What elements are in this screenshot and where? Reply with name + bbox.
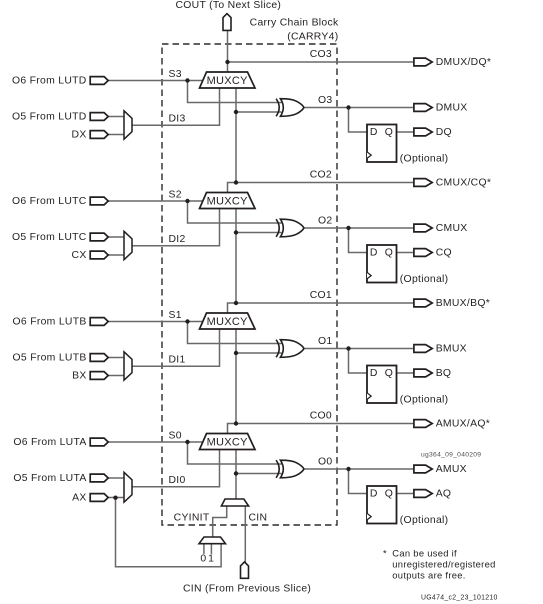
wire flip-flop Q output BQ bbox=[397, 372, 416, 374]
output arrow BMUX/BQ* bbox=[414, 299, 432, 307]
input arrow CX bbox=[90, 251, 108, 259]
svg-text:*: * bbox=[383, 547, 387, 558]
svg-text:UG474_c2_23_101210: UG474_c2_23_101210 bbox=[421, 595, 498, 602]
CYINIT/CIN select mux bbox=[221, 499, 248, 506]
svg-text:MUXCY: MUXCY bbox=[207, 436, 249, 448]
wire to flip-flop D input stage B bbox=[349, 349, 369, 374]
wire O3 output from XOR bbox=[304, 107, 416, 109]
clock triangle flip-flop CQ bbox=[367, 272, 371, 279]
wire DI1 from input mux to MUXCY stage B bbox=[132, 330, 220, 367]
svg-text:O5 From LUTB: O5 From LUTB bbox=[13, 353, 87, 364]
svg-text:DI2: DI2 bbox=[169, 234, 186, 245]
svg-text:AX: AX bbox=[72, 493, 86, 504]
wire carry chain CO0 up to MUXCY stage above bbox=[235, 330, 237, 424]
svg-text:(Optional): (Optional) bbox=[400, 154, 449, 165]
carry chain block dashed boundary (CARRY4) bbox=[162, 44, 337, 525]
svg-text:0: 0 bbox=[200, 553, 206, 564]
output arrow CQ bbox=[414, 249, 432, 257]
wire COUT to MUXCY stage D output bbox=[227, 31, 229, 73]
svg-text:DX: DX bbox=[72, 130, 87, 141]
junction node O2 bbox=[346, 226, 350, 230]
svg-text:DMUX: DMUX bbox=[436, 103, 468, 114]
wire O0 output from XOR bbox=[304, 468, 416, 470]
wire O2 output from XOR bbox=[304, 227, 416, 229]
wire CYINIT-CIN mux output to MUXCY stage A bbox=[235, 450, 237, 500]
input mux O5/CX stage C bbox=[124, 231, 132, 259]
wire O6 From LUTC to select S2 bbox=[108, 200, 204, 202]
XOR gate stage C bbox=[276, 219, 304, 237]
svg-text:S3: S3 bbox=[169, 69, 182, 80]
wire constant 1 stub bbox=[210, 544, 212, 554]
svg-text:CQ: CQ bbox=[436, 248, 452, 259]
input arrow O6 From LUTD bbox=[90, 77, 108, 85]
flip-flop AQ box bbox=[367, 486, 397, 524]
svg-text:CIN (From Previous Slice): CIN (From Previous Slice) bbox=[183, 583, 311, 594]
wire CO2 output bbox=[236, 182, 415, 184]
svg-text:Carry Chain Block: Carry Chain Block bbox=[250, 18, 339, 29]
svg-text:D: D bbox=[370, 368, 378, 379]
svg-text:DI3: DI3 bbox=[169, 114, 186, 125]
wire CX input bbox=[108, 254, 125, 256]
wire flip-flop Q output DQ bbox=[397, 131, 416, 133]
svg-text:BX: BX bbox=[72, 371, 86, 382]
output arrow CMUX/CQ* bbox=[414, 179, 432, 187]
input mux O5/AX stage A bbox=[124, 472, 132, 502]
svg-text:MUXCY: MUXCY bbox=[207, 316, 249, 328]
svg-text:Q: Q bbox=[385, 127, 393, 138]
svg-text:(CARRY4): (CARRY4) bbox=[287, 32, 338, 43]
junction carry tap XOR stage D bbox=[234, 110, 238, 114]
wire O6 From LUTA to select S0 bbox=[108, 441, 204, 443]
XOR gate stage D bbox=[276, 99, 304, 117]
wire CIN from previous slice bbox=[244, 507, 246, 563]
svg-text:1: 1 bbox=[208, 553, 214, 564]
flip-flop DQ box bbox=[367, 125, 397, 163]
MUXCY stage B bbox=[200, 313, 256, 329]
wire constant 0 stub bbox=[203, 544, 205, 554]
svg-text:Q: Q bbox=[385, 368, 393, 379]
wire O5 From LUTB bbox=[108, 357, 125, 359]
clock triangle flip-flop AQ bbox=[367, 513, 371, 520]
output arrow AQ bbox=[414, 490, 432, 498]
input arrow O5 From LUTD bbox=[90, 113, 108, 121]
svg-text:DI1: DI1 bbox=[169, 355, 186, 366]
wire O1 output from XOR bbox=[304, 348, 416, 350]
svg-text:(Optional): (Optional) bbox=[400, 515, 449, 526]
svg-text:CO0: CO0 bbox=[310, 410, 332, 421]
wire O6 From LUTB to select S1 bbox=[108, 321, 204, 323]
junction carry tap XOR stage A bbox=[234, 471, 238, 475]
input arrow BX bbox=[90, 372, 108, 380]
svg-text:(Optional): (Optional) bbox=[400, 274, 449, 285]
input arrow O6 From LUTB bbox=[90, 318, 108, 326]
svg-text:CO2: CO2 bbox=[310, 169, 332, 180]
junction node CO3/COUT bbox=[225, 60, 229, 64]
wire O5 From LUTC bbox=[108, 236, 125, 238]
input arrow O5 From LUTB bbox=[90, 354, 108, 362]
wire DX input bbox=[108, 134, 125, 136]
svg-text:CIN: CIN bbox=[249, 512, 268, 523]
XOR gate stage A bbox=[276, 460, 304, 478]
svg-text:O6 From LUTD: O6 From LUTD bbox=[12, 76, 87, 87]
svg-text:DI0: DI0 bbox=[169, 475, 186, 486]
clock triangle flip-flop BQ bbox=[367, 393, 371, 400]
wire flip-flop Q output AQ bbox=[397, 493, 416, 495]
wire AX input bbox=[108, 497, 125, 499]
svg-text:CX: CX bbox=[72, 250, 87, 261]
wire carry tap to XOR stage A bbox=[236, 473, 282, 475]
wire O5 From LUTA bbox=[108, 477, 125, 479]
wire MUXCY stage A output to CO0 node bbox=[228, 424, 237, 435]
wire carry tap to XOR stage C bbox=[236, 232, 282, 234]
junction carry tap XOR stage C bbox=[234, 230, 238, 234]
wire carry tap to XOR stage D bbox=[236, 111, 282, 113]
svg-text:O3: O3 bbox=[318, 95, 332, 106]
wire DI0 from input mux to MUXCY stage A bbox=[132, 450, 220, 487]
wire S3 branch to XOR stage D bbox=[188, 81, 282, 103]
clock triangle flip-flop DQ bbox=[367, 152, 371, 159]
input arrow DX bbox=[90, 131, 108, 139]
MUXCY stage C bbox=[200, 193, 256, 209]
svg-text:O1: O1 bbox=[318, 336, 332, 347]
MUXCY stage D bbox=[200, 72, 256, 88]
wire CO0 output bbox=[236, 423, 415, 425]
svg-text:AQ: AQ bbox=[436, 489, 452, 500]
svg-text:D: D bbox=[370, 489, 378, 500]
junction node O3 bbox=[346, 105, 350, 109]
svg-text:CMUX: CMUX bbox=[436, 223, 468, 234]
svg-text:MUXCY: MUXCY bbox=[207, 195, 249, 207]
MUXCY stage A bbox=[200, 434, 256, 450]
wire DI2 from input mux to MUXCY stage C bbox=[132, 209, 220, 246]
svg-text:MUXCY: MUXCY bbox=[207, 75, 249, 87]
svg-text:COUT (To Next Slice): COUT (To Next Slice) bbox=[176, 0, 282, 11]
svg-text:O5 From LUTC: O5 From LUTC bbox=[12, 232, 87, 243]
output arrow DQ bbox=[414, 128, 432, 136]
svg-text:S0: S0 bbox=[169, 430, 182, 441]
output arrow DMUX/DQ* bbox=[414, 58, 432, 66]
svg-text:CYINIT: CYINIT bbox=[174, 512, 210, 523]
input mux O5/BX stage B bbox=[124, 352, 132, 380]
svg-text:DQ: DQ bbox=[436, 127, 452, 138]
junction node select S1 bbox=[185, 319, 189, 323]
wire S1 branch to XOR stage B bbox=[188, 322, 282, 344]
wire AX feedback to 0-1 mux bbox=[116, 498, 222, 567]
svg-text:O6 From LUTC: O6 From LUTC bbox=[12, 196, 87, 207]
wire to flip-flop D input stage A bbox=[349, 469, 369, 494]
junction node AX feedback bbox=[113, 496, 117, 500]
junction carry tap XOR stage B bbox=[234, 351, 238, 355]
svg-text:Q: Q bbox=[385, 489, 393, 500]
input arrow O5 From LUTA bbox=[90, 474, 108, 482]
wire DI3 from input mux to MUXCY stage D bbox=[132, 89, 220, 126]
output arrow AMUX/AQ* bbox=[414, 420, 432, 428]
junction node CO2 bbox=[234, 180, 238, 184]
output arrow BQ bbox=[414, 369, 432, 377]
wire MUXCY stage B output to CO1 node bbox=[228, 303, 237, 314]
wire MUXCY stage C output to CO2 node bbox=[228, 183, 237, 194]
input arrow O5 From LUTC bbox=[90, 233, 108, 241]
svg-text:(Optional): (Optional) bbox=[400, 395, 449, 406]
input mux O5/DX stage D bbox=[124, 111, 132, 139]
svg-text:BMUX/BQ*: BMUX/BQ* bbox=[436, 298, 490, 309]
svg-text:Q: Q bbox=[385, 248, 393, 259]
svg-text:O2: O2 bbox=[318, 216, 332, 227]
svg-text:D: D bbox=[370, 248, 378, 259]
wire carry chain CO2 up to MUXCY stage above bbox=[235, 89, 237, 183]
wire BX input bbox=[108, 375, 125, 377]
CIN arrow (from previous slice) bbox=[241, 562, 249, 578]
wire O5 From LUTD bbox=[108, 116, 125, 118]
0/1 constant mux bbox=[199, 537, 226, 544]
junction node CO1 bbox=[234, 301, 238, 305]
wire O6 From LUTD to select S3 bbox=[108, 80, 204, 82]
svg-text:ug364_09_040209: ug364_09_040209 bbox=[421, 451, 481, 458]
svg-text:O6 From LUTA: O6 From LUTA bbox=[13, 437, 86, 448]
svg-text:O5 From LUTD: O5 From LUTD bbox=[12, 112, 87, 123]
svg-text:CO1: CO1 bbox=[310, 290, 332, 301]
svg-text:Can be used if: Can be used if bbox=[392, 547, 457, 558]
wire S0 branch to XOR stage A bbox=[188, 442, 282, 464]
junction node O0 bbox=[346, 467, 350, 471]
svg-text:BQ: BQ bbox=[436, 368, 452, 379]
svg-text:outputs are free.: outputs are free. bbox=[392, 570, 465, 581]
flip-flop CQ box bbox=[367, 245, 397, 283]
svg-text:AMUX/AQ*: AMUX/AQ* bbox=[436, 419, 490, 430]
output arrow AMUX bbox=[414, 465, 432, 473]
XOR gate stage B bbox=[276, 340, 304, 358]
svg-text:unregistered/registered: unregistered/registered bbox=[392, 559, 495, 570]
svg-text:O5 From LUTA: O5 From LUTA bbox=[13, 473, 86, 484]
junction node select S3 bbox=[185, 78, 189, 82]
input arrow AX bbox=[90, 494, 108, 502]
flip-flop BQ box bbox=[367, 366, 397, 404]
output arrow DMUX bbox=[414, 104, 432, 112]
output arrow CMUX bbox=[414, 224, 432, 232]
junction node select S0 bbox=[185, 440, 189, 444]
svg-text:DMUX/DQ*: DMUX/DQ* bbox=[436, 57, 492, 68]
COUT arrow (to next slice) bbox=[223, 14, 231, 31]
svg-text:S1: S1 bbox=[169, 310, 182, 321]
svg-text:CO3: CO3 bbox=[310, 49, 332, 60]
wire flip-flop Q output CQ bbox=[397, 252, 416, 254]
svg-text:S2: S2 bbox=[169, 189, 182, 200]
junction node O1 bbox=[346, 346, 350, 350]
wire to flip-flop D input stage C bbox=[349, 228, 369, 253]
wire carry chain CO1 up to MUXCY stage above bbox=[235, 209, 237, 303]
svg-text:BMUX: BMUX bbox=[436, 344, 467, 355]
wire CO3 output bbox=[228, 61, 416, 63]
wire to flip-flop D input stage D bbox=[349, 108, 369, 133]
svg-text:CMUX/CQ*: CMUX/CQ* bbox=[436, 178, 492, 189]
svg-text:AMUX: AMUX bbox=[436, 464, 467, 475]
wire S2 branch to XOR stage C bbox=[188, 201, 282, 223]
wire CYINIT from 0-1 mux to CYINIT-CIN mux bbox=[213, 507, 227, 539]
svg-text:O6 From LUTB: O6 From LUTB bbox=[13, 317, 87, 328]
junction node CO0 bbox=[234, 421, 238, 425]
wire carry tap to XOR stage B bbox=[236, 352, 282, 354]
wire CO1 output bbox=[236, 302, 415, 304]
input arrow O6 From LUTC bbox=[90, 197, 108, 205]
input arrow O6 From LUTA bbox=[90, 438, 108, 446]
svg-text:D: D bbox=[370, 127, 378, 138]
output arrow BMUX bbox=[414, 345, 432, 353]
svg-text:O0: O0 bbox=[318, 457, 332, 468]
junction node select S2 bbox=[185, 199, 189, 203]
